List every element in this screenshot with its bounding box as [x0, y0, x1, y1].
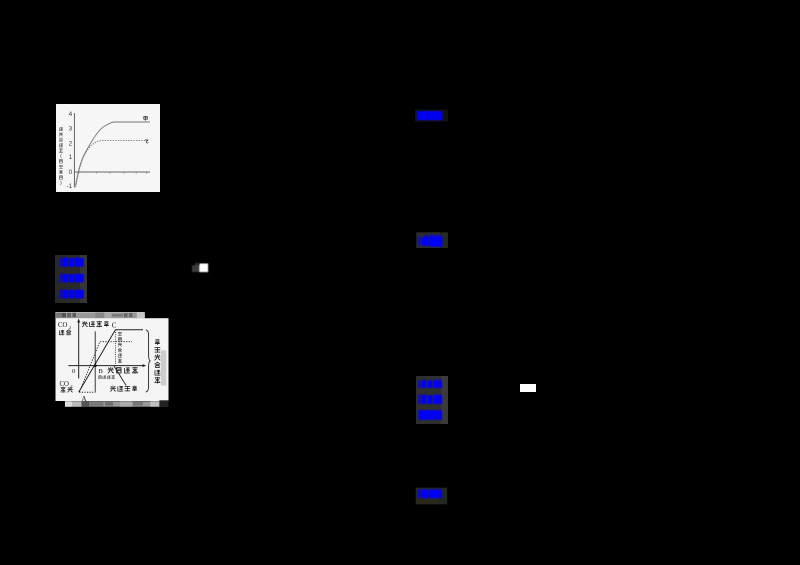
light intensity label — [108, 367, 114, 373]
plateau from C — [115, 329, 143, 331]
white box right of group — [520, 384, 536, 392]
y axis with arrow — [78, 322, 80, 379]
svg-text:CO: CO — [58, 322, 68, 329]
svg-text:3: 3 — [69, 126, 73, 133]
top gray band — [56, 312, 145, 318]
blue row 3 — [60, 290, 84, 299]
blue row 1 — [60, 257, 84, 267]
x axis — [74, 171, 150, 173]
blue row 3 — [418, 410, 442, 420]
light saturation point text — [110, 386, 115, 391]
label jia 甲 — [144, 117, 148, 121]
svg-text:B: B — [99, 368, 104, 375]
left blue answers group — [55, 255, 87, 303]
light compensation point text 光补偿点 + C — [82, 321, 87, 326]
blue row 1 — [418, 379, 442, 388]
right brace — [146, 330, 151, 392]
curve jia (solid) — [76, 122, 151, 186]
right blue answers group (3 rows) — [416, 376, 441, 425]
svg-text:CO: CO — [60, 381, 70, 388]
blue answer 2 (text on dark) — [414, 230, 450, 250]
apparent rate vertical text — [118, 332, 122, 362]
svg-text:C: C — [112, 322, 117, 330]
svg-text:0: 0 — [72, 368, 75, 375]
blue answer bar 1 (solid) — [413, 107, 449, 123]
svg-text:0: 0 — [69, 169, 73, 176]
svg-text:1: 1 — [69, 154, 73, 161]
svg-text:-1: -1 — [67, 183, 73, 190]
y axis title (vertical): 净光合速率（相对单位） — [59, 127, 63, 185]
svg-text:2: 2 — [69, 141, 73, 148]
label yi 乙 — [145, 140, 148, 143]
light gray strip behind right text — [161, 350, 167, 385]
vertical line through B (plateau level down to A level) — [94, 331, 96, 391]
y axis — [73, 113, 75, 188]
dashed gross line — [79, 342, 132, 392]
figure 2: CO2 absorption / light intensity chart — [55, 312, 169, 407]
respiration rate small text — [99, 375, 115, 379]
y tick labels — [67, 111, 73, 190]
blue row 2 — [418, 394, 442, 403]
small icon: gray+white marker near first answer row — [191, 262, 210, 274]
释放 — [61, 387, 66, 392]
solid line A to C — [79, 330, 116, 392]
A level dotted line — [79, 391, 95, 393]
CO2 release label — [60, 381, 74, 389]
吸收 — [59, 330, 64, 334]
fake-hanzi glyph symbol library (target text is a blurry scan; drawn as stroke smudges) — [0, 0, 1, 1]
figure 1: net photosynthesis curves chart — [56, 104, 160, 192]
svg-text:4: 4 — [69, 111, 73, 118]
blue answer 3 (text on dark) — [414, 486, 450, 506]
x axis with arrow — [68, 365, 144, 367]
saturation pointer line — [114, 366, 126, 385]
curve yi (dashed) — [76, 141, 149, 187]
svg-text:A: A — [82, 395, 87, 403]
black top-right corner — [145, 312, 169, 318]
vertical dashed under C — [115, 330, 117, 366]
true rate vertical text — [155, 340, 160, 383]
white ground — [56, 312, 169, 401]
bottom gray band — [65, 400, 168, 407]
x ticks — [96, 172, 146, 174]
dot at B crossing — [94, 364, 97, 367]
blue row 2 — [60, 274, 84, 283]
CO2 absorb label — [58, 322, 72, 330]
